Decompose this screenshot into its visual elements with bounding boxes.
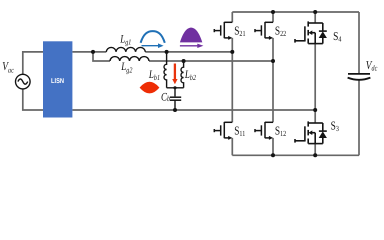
svg-text:Lg2: Lg2 (121, 61, 133, 74)
svg-text:S4: S4 (333, 29, 341, 44)
svg-text:Cb: Cb (161, 91, 170, 103)
svg-text:Vac: Vac (2, 59, 14, 74)
svg-text:LISN: LISN (51, 78, 64, 85)
svg-text:S12: S12 (275, 124, 286, 139)
svg-text:S21: S21 (234, 24, 245, 39)
svg-text:S22: S22 (275, 24, 286, 39)
svg-text:Lb2: Lb2 (184, 69, 196, 82)
svg-text:S3: S3 (331, 118, 339, 133)
svg-text:Vdc: Vdc (366, 58, 378, 72)
svg-text:Lb1: Lb1 (148, 69, 160, 82)
svg-text:S11: S11 (234, 124, 245, 139)
svg-text:Lg1: Lg1 (119, 33, 131, 46)
